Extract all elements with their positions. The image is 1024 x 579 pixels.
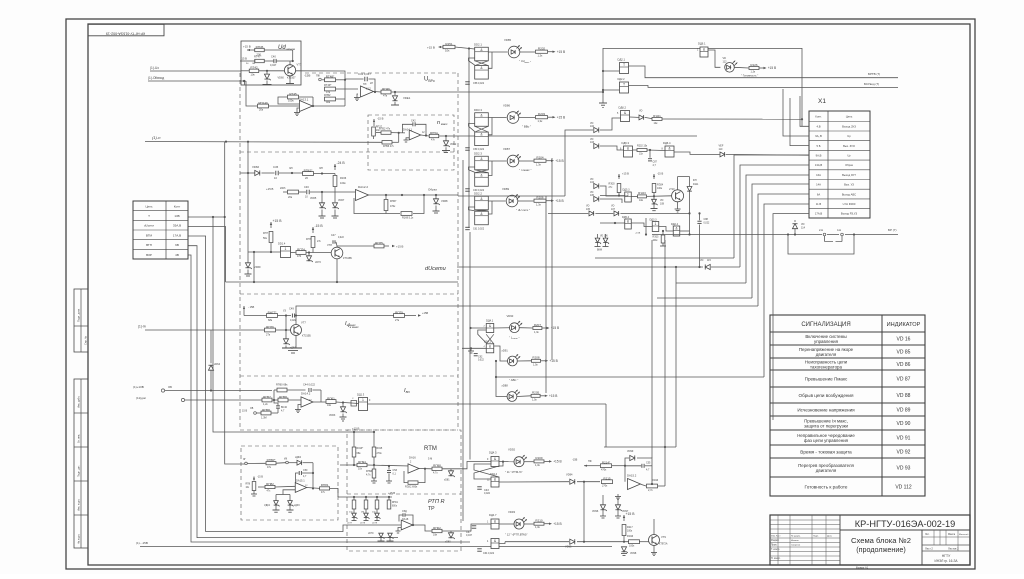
resistor R181 <box>320 487 330 490</box>
wire latch crosscouple DD2.1 <box>469 58 475 65</box>
capacitor C50 loop <box>296 473 299 485</box>
svg-text:КТ315Б: КТ315Б <box>302 335 311 338</box>
capacitor C45 <box>275 171 277 176</box>
wire UBR out right <box>458 91 603 93</box>
svg-text:C5Д: C5Д <box>402 510 407 513</box>
svg-text:DД6.4: DД6.4 <box>663 141 671 145</box>
resistor R207 <box>533 327 542 330</box>
resistor R208 <box>532 359 541 362</box>
logic DD2.2b <box>475 211 489 225</box>
wire DA14.2 out <box>313 401 326 403</box>
svg-text:VD 16: VD 16 <box>897 336 911 342</box>
svg-text:15 В: 15 В <box>242 57 248 61</box>
resistor R214 <box>601 464 612 468</box>
wire VD105 to DD5.1 <box>600 199 622 203</box>
svg-text:RП91: RП91 <box>392 502 399 504</box>
svg-text:-15 В: -15 В <box>257 476 263 479</box>
capacitor C61 <box>465 226 470 228</box>
svg-text:+15 В: +15 В <box>555 159 563 163</box>
svg-text:-15В: -15В <box>304 74 310 78</box>
resistor RP46 <box>374 91 382 94</box>
logic DD3.3 <box>475 113 489 127</box>
svg-text:RTM: RTM <box>424 446 437 452</box>
svg-text:DA16: DA16 <box>409 456 416 460</box>
wire DA15.1 feedback vertical <box>312 463 314 489</box>
svg-text:хD70: хD70 <box>315 261 321 264</box>
feedback loop DA16 <box>404 471 408 483</box>
svg-text:Разраб.: Разраб. <box>771 540 780 542</box>
resistor RT45 <box>288 95 299 99</box>
resistor R137 vertical <box>372 127 376 136</box>
svg-text:102: 102 <box>590 125 595 128</box>
ground VD68 <box>435 206 437 212</box>
wire table VZR row <box>189 255 471 542</box>
logic DD2.1 <box>620 63 629 74</box>
wire DD2.2 out BSU <box>629 86 899 88</box>
svg-text:VD 91: VD 91 <box>897 435 911 441</box>
diode VD103 <box>594 143 599 148</box>
wire RP45 to C40 node <box>264 49 293 51</box>
svg-text:104: 104 <box>590 181 595 184</box>
svg-text:C41 0,047: C41 0,047 <box>358 72 371 76</box>
svg-text:VD 93: VD 93 <box>897 465 911 471</box>
svg-text:115: 115 <box>707 259 711 262</box>
led VD89 <box>506 195 518 207</box>
svg-text:(продолжение): (продолжение) <box>856 545 906 554</box>
wire DA15.1 out <box>307 487 320 490</box>
relay contact 4-N <box>841 233 844 236</box>
wire RT42 to VT7 <box>259 70 285 72</box>
wire lower bus <box>253 252 255 282</box>
power +15V R205 <box>540 395 545 397</box>
ground VD96 <box>600 515 606 517</box>
ground VD62 <box>445 147 447 150</box>
svg-text:Формат А1: Формат А1 <box>856 566 869 569</box>
svg-text:RП45: RП45 <box>256 45 264 49</box>
diode VD78 zener <box>365 509 367 513</box>
capacitor C49 <box>291 314 293 318</box>
svg-text:RП67: RП67 <box>390 200 397 203</box>
logic DD4.3 <box>491 457 499 467</box>
svg-text:4,7х: 4,7х <box>433 471 438 474</box>
svg-text:RТ47*: RТ47* <box>254 55 261 59</box>
svg-text:двигателя: двигателя <box>816 468 837 473</box>
svg-text:15 В: 15 В <box>242 410 247 413</box>
svg-text:КР-НГТУ-016ЭА-002-19: КР-НГТУ-016ЭА-002-19 <box>106 32 145 36</box>
resistor R161 <box>326 400 336 404</box>
diode VD68 zener <box>435 195 437 199</box>
svg-text:хD91: хD91 <box>502 349 509 353</box>
wire X1 top feeds <box>783 89 809 136</box>
resistor R226 <box>749 67 759 70</box>
resistor R160 feedback <box>277 388 287 392</box>
svg-text:R169 5,1к: R169 5,1к <box>402 217 414 220</box>
svg-text:100к: 100к <box>288 99 294 103</box>
svg-text:ОБ: ОБ <box>168 385 172 389</box>
led VD86 <box>507 112 519 124</box>
logic DD5.4 <box>625 219 632 229</box>
wire DD3.3 to led <box>488 117 506 119</box>
wire R224 down <box>653 193 655 197</box>
capacitor C44 <box>308 388 310 392</box>
wire C43 down <box>277 409 279 414</box>
resistor R251 <box>443 45 455 48</box>
svg-text:" Готовность ": " Готовность " <box>741 74 758 78</box>
svg-text:(1)-ОКвход: (1)-ОКвход <box>148 76 164 80</box>
svg-text:RН7: RН7 <box>263 232 269 235</box>
svg-text:DA15.2: DA15.2 <box>627 474 637 478</box>
svg-text:+15 В: +15 В <box>622 172 629 176</box>
svg-text:№ докум.: № докум. <box>791 535 801 538</box>
svg-text:R209: R209 <box>535 456 543 460</box>
wire DD3.2b out <box>659 227 673 232</box>
svg-text:100к: 100к <box>629 544 635 547</box>
divider dUseti-Iya dashed <box>240 293 458 295</box>
svg-text:хD79: хD79 <box>372 523 378 525</box>
diode VD61 <box>394 92 396 95</box>
wire C40 to base <box>277 60 293 62</box>
svg-text:DD3.3: DD3.3 <box>474 108 482 112</box>
power +15V led112 <box>759 67 764 69</box>
ground DA13.2 <box>356 95 358 98</box>
ground VD60 <box>263 84 272 86</box>
svg-text:Образ: Образ <box>428 188 437 192</box>
led VD88 <box>507 392 517 402</box>
power +15V R207 <box>542 327 547 329</box>
svg-text:Конт.: Конт. <box>815 115 822 119</box>
svg-text:DД3.3: DД3.3 <box>650 218 658 221</box>
svg-text:DА14.1: DА14.1 <box>403 127 412 131</box>
svg-text:C40: C40 <box>271 54 276 58</box>
ground DA14.2 <box>298 405 301 408</box>
resistor R176 <box>265 328 276 332</box>
diode VD108 zener <box>653 196 655 200</box>
logic DD2.2 <box>620 82 629 93</box>
logic DD2.2 <box>475 196 489 210</box>
wire table VTM row <box>189 236 402 532</box>
svg-text:VD99: VD99 <box>627 450 634 453</box>
resistor R215 <box>602 480 613 484</box>
resistor R174 <box>291 252 296 254</box>
svg-text:Листов 2: Листов 2 <box>948 547 959 551</box>
svg-text:ОВ: ОВ <box>250 408 254 410</box>
wire DA18 out <box>413 525 432 531</box>
divider UBRo-dUseti dashed <box>240 151 458 153</box>
wire resistor stack <box>336 79 346 81</box>
svg-text:17А,В: 17А,В <box>173 233 181 237</box>
svg-text:RП60 68к: RП60 68к <box>276 383 288 387</box>
svg-text:VD90: VD90 <box>507 314 514 318</box>
svg-text:RП02: RП02 <box>433 526 441 530</box>
wire DD4.2 input <box>462 347 486 349</box>
resistor R166 <box>333 176 337 187</box>
svg-text:VD94: VD94 <box>566 473 573 477</box>
ground VD61 <box>394 102 396 105</box>
svg-text:+15 В: +15 В <box>243 44 251 48</box>
svg-text:(1)- -15В: (1)- -15В <box>136 541 148 545</box>
wire VT9 collector <box>653 519 655 535</box>
wire +10V input <box>165 390 272 392</box>
logic DD6.4 <box>647 149 665 152</box>
svg-text:R215: R215 <box>603 477 611 481</box>
svg-text:ЭЛ: ЭЛ <box>289 166 293 170</box>
svg-text:VДF2: VДF2 <box>264 504 271 507</box>
svg-text:DD2.2: DD2.2 <box>474 192 482 196</box>
wire branch y377 <box>496 361 764 377</box>
svg-text:БР (7): БР (7) <box>888 228 896 232</box>
left margin column boxes upper <box>74 289 88 352</box>
svg-text:RЭ16: RЭ16 <box>627 535 634 538</box>
resistor R182 <box>265 485 275 488</box>
svg-text:+15 В: +15 В <box>266 187 274 191</box>
resistor RN73 <box>269 232 273 243</box>
transistor VT7 <box>284 65 295 76</box>
wire dUseti out right <box>458 195 565 197</box>
svg-text:НГТУ: НГТУ <box>942 554 951 558</box>
resistor R194 <box>357 463 367 466</box>
terminal ZG <box>245 462 248 465</box>
op-amp DA18 <box>401 520 413 530</box>
svg-text:0,047: 0,047 <box>466 534 473 537</box>
svg-text:Выход РЗ,УЗ: Выход РЗ,УЗ <box>841 212 858 216</box>
svg-text:+15 В: +15 В <box>388 491 395 495</box>
resistor R223 <box>638 195 647 198</box>
svg-text:DA13.1: DA13.1 <box>299 98 309 102</box>
svg-text:хD81: хD81 <box>444 479 450 482</box>
ground VD98 <box>621 553 627 555</box>
wire VT9 row <box>505 541 569 543</box>
wire DD43 crosscouple <box>474 464 499 477</box>
vertical bus x606 <box>605 404 607 447</box>
svg-text:RП5З 47х: RП5З 47х <box>383 145 395 148</box>
svg-text:R205: R205 <box>532 391 540 395</box>
ground R196 <box>373 478 375 481</box>
svg-text:Образ: Образ <box>845 163 854 167</box>
svg-text:VD68: VD68 <box>441 199 448 203</box>
vertical x552 <box>551 158 553 360</box>
wire led90 to R207 <box>519 327 532 329</box>
vertical bus x665 <box>664 240 666 447</box>
svg-text:КТ315Б: КТ315Б <box>343 257 352 260</box>
wire y213 long <box>548 212 588 214</box>
led VD87 <box>507 155 519 167</box>
svg-text:+15 В: +15 В <box>549 359 557 363</box>
capacitor C42 loop <box>402 124 412 133</box>
svg-text:105: 105 <box>586 208 591 211</box>
svg-text:DА15.1: DА15.1 <box>296 479 305 483</box>
wire R217 down <box>623 536 625 542</box>
svg-text:" ВВо ": " ВВо " <box>522 125 531 129</box>
ground C62 <box>470 348 472 351</box>
wire VD104 to DD5.1 <box>600 186 628 196</box>
logic DD2.3 <box>475 156 489 170</box>
svg-text:Подп. дат.: Подп. дат. <box>78 465 81 477</box>
svg-text:VD 90: VD 90 <box>897 421 911 427</box>
top-left stamp box <box>88 24 164 36</box>
svg-text:RП79: RП79 <box>395 310 403 314</box>
svg-text:+15 В: +15 В <box>555 199 563 203</box>
resistor R195 vertical <box>373 432 375 447</box>
svg-text:VD 89: VD 89 <box>897 407 911 413</box>
svg-text:VD: VD <box>700 259 704 262</box>
block RTM-RTP dashed <box>347 430 461 551</box>
svg-text:VD67: VD67 <box>338 199 345 202</box>
ground VD65 <box>321 210 323 217</box>
wire DD5.4 out <box>631 223 652 227</box>
svg-text:6А: 6А <box>817 192 820 196</box>
svg-text:270к: 270к <box>602 484 608 487</box>
wire DA12.2 out <box>369 194 459 196</box>
wire RTM out to DD4.3 <box>461 462 491 469</box>
svg-text:Дата: Дата <box>827 536 833 538</box>
svg-text:ИНДИКАТОР: ИНДИКАТОР <box>887 322 921 328</box>
svg-text:16А: 16А <box>816 173 821 177</box>
wire VD94 row <box>499 481 569 483</box>
capacitor C62 <box>474 353 478 355</box>
wire y258 long <box>595 257 734 259</box>
svg-text:RП75: RП75 <box>375 241 383 245</box>
wire VT10 emitter <box>677 202 679 207</box>
power +15V R203 <box>548 116 553 118</box>
resistor R169 <box>401 212 412 216</box>
svg-text:14А: 14А <box>816 183 821 187</box>
svg-text:1,3М: 1,3М <box>261 417 267 420</box>
diode VD62 zener <box>445 136 447 141</box>
wire X1 row3 top feed <box>790 98 809 146</box>
diode VD111 <box>689 177 691 187</box>
resistor R224 vertical <box>652 184 656 193</box>
svg-text:Превышение Пмакс: Превышение Пмакс <box>805 376 848 381</box>
ground C53 <box>388 474 390 482</box>
divider Iya-IVO dashed <box>240 375 458 377</box>
svg-text:БСУвод (7): БСУвод (7) <box>864 82 879 86</box>
resistor R202 <box>536 50 548 53</box>
wire VD110 to X1 <box>726 153 809 156</box>
wire VT7 emitter <box>295 336 297 349</box>
capacitor C55 <box>625 465 641 467</box>
capacitor C53 <box>388 466 390 470</box>
wire C49 to R179 <box>296 315 394 317</box>
vertical bus x463 <box>462 160 464 521</box>
ground DA13.1 <box>297 108 300 110</box>
diode VD94 <box>570 479 575 484</box>
svg-text:Uр: Uр <box>847 134 851 138</box>
resistor RT49 <box>325 87 336 91</box>
diode VD96 zener <box>600 505 605 510</box>
svg-text:9А,В: 9А,В <box>816 153 822 157</box>
wire ZG to R180 <box>248 462 266 464</box>
resistor R191b vertical <box>388 497 390 500</box>
svg-text:RТ42: RТ42 <box>250 66 258 70</box>
svg-text:0,022: 0,022 <box>338 237 344 239</box>
block Ud solid box <box>241 41 301 85</box>
svg-text:107: 107 <box>611 208 616 211</box>
svg-text:Смирнов: Смирнов <box>791 545 801 547</box>
svg-text:VD63: VD63 <box>329 414 336 417</box>
wire RN73 down <box>270 243 272 252</box>
svg-text:RЭ25: RЭ25 <box>653 237 660 239</box>
svg-text:Нв.подл.: Нв.подл. <box>78 534 81 544</box>
op-amp DA15.2 <box>628 478 641 489</box>
resistor R18A vertical <box>252 482 256 491</box>
svg-text:-24 В: -24 В <box>337 161 346 165</box>
wire RP162 node <box>314 173 336 175</box>
svg-text:35А,В: 35А,В <box>173 224 181 228</box>
svg-text:+15 В: +15 В <box>549 394 557 398</box>
diode VD104 <box>594 183 599 188</box>
svg-text:+15 В: +15 В <box>626 512 636 516</box>
wire R251 to bus <box>455 47 475 49</box>
svg-text:хТ10: хТ10 <box>669 188 675 191</box>
svg-text:Масштаб: Масштаб <box>959 534 969 536</box>
svg-text:DД4.3: DД4.3 <box>489 451 497 455</box>
resistor R225 vertical <box>661 235 665 243</box>
diode VDF1 zener <box>285 330 287 339</box>
svg-text:470к: 470к <box>390 205 396 208</box>
power -15V nmax <box>373 119 375 126</box>
capacitor C60 <box>465 188 470 190</box>
connector X1 table <box>809 111 870 218</box>
svg-text:защита от перегрузки: защита от перегрузки <box>804 424 849 429</box>
wire -15V arrow <box>584 465 600 467</box>
op-amp DA13.2 <box>361 86 374 97</box>
svg-text:+15 В: +15 В <box>396 245 404 249</box>
svg-text:RП57: RП57 <box>263 395 271 399</box>
svg-text:X1: X1 <box>818 98 826 105</box>
resistor R205 <box>531 394 540 397</box>
capacitor C46 <box>306 190 308 195</box>
svg-text:хD80: хD80 <box>445 541 451 544</box>
svg-text:+15 В: +15 В <box>427 46 435 50</box>
wire DD2.1 to led <box>488 51 507 53</box>
pin square DD1.3 input <box>351 401 357 407</box>
svg-text:КР-НГТУ-016ЭА-002-19: КР-НГТУ-016ЭА-002-19 <box>855 519 955 529</box>
wire R161 node <box>336 402 359 404</box>
block DA15.1 dashed <box>241 446 338 520</box>
diode VD67 zener <box>332 203 337 208</box>
transistor VT8 <box>331 247 343 259</box>
wire R194 to DA16 <box>367 465 410 466</box>
ground VT10 <box>677 207 679 210</box>
logic DD6.2 <box>621 111 630 122</box>
svg-text:DД2.1: DД2.1 <box>618 58 626 62</box>
wire RP153 node <box>392 141 399 143</box>
diode VD64 <box>208 365 213 370</box>
relay bypass loop <box>788 235 854 255</box>
wire C45 node <box>279 172 303 174</box>
vertical x584 down <box>583 482 585 542</box>
svg-text:D111: D111 <box>693 183 699 186</box>
svg-text:ФН: ФН <box>693 179 697 182</box>
power -24V <box>334 164 336 170</box>
diode VD97 zener <box>615 505 620 510</box>
resistor R216 <box>647 484 658 488</box>
title block <box>770 515 970 565</box>
svg-text:КТ3107: КТ3107 <box>287 76 296 79</box>
svg-text:RЛ52: RЛ52 <box>324 93 331 97</box>
svg-text:управления: управления <box>814 339 839 344</box>
svg-text:R202: R202 <box>538 47 546 51</box>
diode VD69 zener <box>245 263 250 268</box>
svg-text:13.2: 13.2 <box>366 88 371 91</box>
wire VT8 collector <box>336 246 338 247</box>
svg-text:VD86: VD86 <box>503 104 510 108</box>
svg-text:(1)-Iя: (1)-Iя <box>138 325 146 329</box>
svg-text:RЭ16: RЭ16 <box>652 479 659 482</box>
vertical bus x697 <box>699 225 701 268</box>
resistor R102 <box>432 529 442 532</box>
svg-text:R195: R195 <box>377 447 383 450</box>
